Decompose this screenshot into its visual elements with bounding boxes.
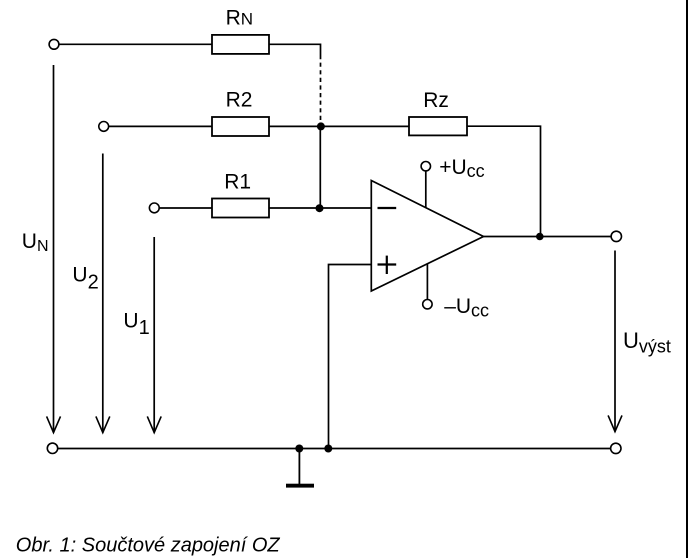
resistor RN (212, 35, 269, 54)
wire dashed RN to summing node (320, 55, 322, 123)
wire RN output with corner (269, 44, 321, 55)
wire R2 output to node A (269, 125, 321, 127)
junction node B (316, 204, 324, 212)
op-amp U1 (371, 181, 483, 292)
svg-text:U2: U2 (72, 264, 98, 294)
pin plus symbol (378, 263, 397, 265)
wire -Ucc stub (426, 263, 428, 299)
node IN_2 terminal (99, 122, 109, 132)
wire bottom rail (58, 448, 611, 450)
svg-text:Uvýst: Uvýst (623, 328, 671, 356)
arrow U1 (153, 237, 155, 433)
wire R1 output to inverting input (269, 207, 371, 209)
node OUT terminal (611, 231, 621, 241)
node IN_N terminal (49, 39, 59, 49)
arrow UN (53, 65, 55, 433)
svg-text:–Ucc: –Ucc (444, 295, 489, 320)
node -Ucc terminal (423, 300, 432, 309)
svg-text:RN: RN (226, 6, 253, 29)
junction output node (536, 233, 544, 241)
wire Rz to output node (467, 126, 541, 236)
svg-text:U1: U1 (123, 310, 149, 340)
junction node A (317, 122, 325, 130)
wire R1 input (160, 207, 212, 209)
svg-text:+Ucc: +Ucc (439, 156, 484, 181)
node bottom right terminal (611, 443, 621, 453)
ground (298, 449, 300, 485)
wire op-amp output (484, 236, 612, 238)
junction ground node (295, 445, 303, 453)
wire R2 input (109, 125, 212, 127)
svg-text:Obr. 1: Součtové zapojení OZ: Obr. 1: Součtové zapojení OZ (16, 534, 281, 556)
resistor R2 (212, 117, 269, 136)
svg-text:R2: R2 (226, 88, 253, 111)
wire RN input (59, 43, 212, 45)
node +Ucc terminal (421, 162, 430, 171)
resistor Rz (409, 117, 467, 135)
wire bus node A to node B (319, 126, 321, 208)
node bottom left terminal (47, 443, 57, 453)
svg-text:UN: UN (22, 230, 49, 255)
wire +Ucc stub (425, 171, 427, 208)
svg-text:Rz: Rz (423, 89, 449, 112)
page edge line (686, 0, 688, 558)
node IN_1 terminal (149, 203, 159, 213)
arrow U2 (102, 154, 104, 433)
junction non-inverting rail node (324, 445, 332, 453)
arrow Uvyst (614, 251, 616, 432)
resistor R1 (212, 199, 269, 218)
wire node A to Rz (321, 125, 409, 127)
pin minus symbol (378, 207, 397, 209)
svg-text:R1: R1 (224, 170, 251, 193)
wire non-inverting input (329, 265, 372, 449)
